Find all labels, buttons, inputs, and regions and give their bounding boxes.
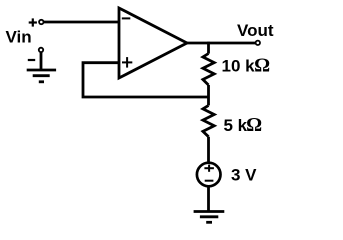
node Vin+ terminal	[39, 20, 43, 24]
voltage source V1	[197, 163, 221, 187]
op-amp U1	[119, 8, 187, 78]
Vin + polarity mark	[29, 18, 37, 26]
ground (input side)	[27, 70, 56, 82]
svg-text:10 kΩ: 10 kΩ	[222, 55, 271, 77]
resistor R2	[203, 105, 214, 136]
wire R1 to R2 (feedback node)	[207, 85, 210, 105]
wire Vin+ terminal to op-amp inverting input	[44, 21, 119, 24]
svg-text:Vout: Vout	[237, 21, 274, 40]
ground (source side)	[194, 212, 225, 223]
svg-text:5 kΩ: 5 kΩ	[224, 114, 263, 136]
wire output node down to R1	[207, 42, 210, 54]
node Vin- terminal	[39, 48, 43, 52]
node Vout terminal	[256, 41, 260, 45]
wire V1 to ground	[207, 186, 210, 212]
wire feedback node to op-amp non-inverting input	[83, 63, 209, 97]
svg-text:Vin: Vin	[6, 27, 32, 46]
svg-text:3 V: 3 V	[231, 166, 257, 185]
wire Vin- terminal to ground	[40, 52, 43, 69]
wire R2 to voltage source V1	[207, 137, 210, 163]
resistor R1	[203, 54, 214, 86]
wire op-amp output to Vout terminal	[186, 42, 255, 45]
Vin - polarity mark	[28, 59, 35, 61]
